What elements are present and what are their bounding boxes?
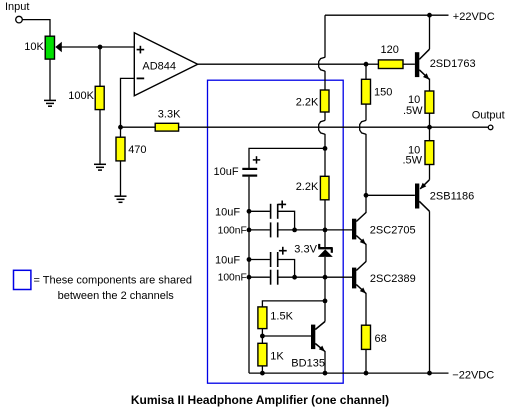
wire 2.2K to hop [324, 112, 326, 121]
svg-text:68: 68 [375, 333, 387, 345]
wire hop to node [324, 134, 326, 176]
wire 150 to hop [365, 104, 367, 120]
svg-text:100K: 100K [68, 90, 94, 102]
wire top cap to node [249, 148, 325, 168]
svg-text:10K: 10K [24, 41, 44, 53]
svg-text:1.5K: 1.5K [270, 311, 293, 323]
wire 2SC2389 emitter to 68 [365, 293, 367, 325]
svg-text:1K: 1K [270, 350, 284, 362]
resistor 10 .5W lower [425, 141, 434, 165]
capacitor 10uF top [242, 156, 260, 175]
ground under pot [44, 100, 56, 106]
svg-text:2.2K: 2.2K [296, 96, 319, 108]
resistor 2.2K upper [320, 90, 329, 112]
wire zener to BD135 node [324, 257, 326, 322]
wire feedback/output line [179, 126, 488, 128]
wire 10ohm to 2SB emitter [429, 165, 431, 180]
svg-text:AD844: AD844 [142, 60, 176, 72]
transistor Q4 2SC2389 [352, 262, 366, 294]
resistor 150 [362, 79, 371, 104]
node junction dots [98, 13, 432, 376]
wire cap row4 to 2SC2389 base [278, 276, 352, 278]
wire 100K to ground [99, 110, 101, 164]
wire 2.2K2 to zener [324, 200, 326, 247]
legend shared box [14, 270, 31, 289]
transistor Q1 2SD1763 [415, 49, 430, 80]
ground under 470 [115, 196, 127, 202]
wire 2SD emitter to 10ohm [429, 79, 431, 92]
wire rail to 2SD collector [429, 15, 431, 49]
wire caps chain [248, 177, 250, 374]
resistor 470 [116, 137, 125, 161]
svg-text:between the 2 channels: between the 2 channels [58, 290, 175, 302]
svg-text:2.2K: 2.2K [296, 181, 319, 193]
wire pot to ground [49, 59, 51, 100]
svg-text:100nF: 100nF [218, 225, 247, 236]
svg-text:10uF: 10uF [215, 254, 240, 266]
svg-text:.5W: .5W [403, 155, 423, 167]
svg-text:120: 120 [381, 44, 399, 56]
wire 1K to rail [261, 366, 263, 373]
resistor 100K [95, 86, 104, 109]
wire cap row2 left [249, 229, 270, 231]
capacitor 10uF row1 [271, 201, 287, 219]
resistor 3.3K [155, 123, 178, 131]
wire mid branch top [324, 15, 326, 57]
wire +22VDC rail [325, 14, 449, 16]
wire node to 2SB1186 base [366, 194, 415, 196]
wire hop over output line [319, 120, 325, 134]
zener diode 3.3V [318, 244, 333, 257]
svg-text:.5W: .5W [403, 105, 423, 117]
wire cap row2 to 2SC2705 base [278, 229, 352, 231]
wire 120 to 2SD base [403, 63, 415, 65]
wire 1.5K to 1K [261, 329, 263, 344]
svg-text:BD135: BD135 [291, 357, 325, 369]
wire node to 470 [120, 127, 122, 137]
wire 2SB collector to rail [429, 211, 431, 373]
potentiometer 10K [45, 36, 62, 59]
svg-text:+22VDC: +22VDC [453, 11, 495, 23]
svg-text:Input: Input [5, 1, 29, 13]
wire 120 to node [366, 63, 378, 65]
svg-text:2SD1763: 2SD1763 [430, 58, 476, 70]
wire op-amp output [198, 63, 366, 65]
ground under 100K [94, 164, 106, 170]
wire 68 to rail [365, 349, 367, 373]
output terminal [488, 125, 493, 130]
svg-text:150: 150 [374, 86, 392, 98]
transistor Q2 2SB1186 [415, 180, 430, 212]
wire BD135 base [262, 335, 311, 337]
svg-text:2SB1186: 2SB1186 [430, 190, 474, 202]
svg-text:2SC2389: 2SC2389 [370, 273, 416, 285]
wire node to 100K [99, 47, 101, 86]
svg-text:2SC2705: 2SC2705 [370, 225, 416, 237]
wire hop over op-amp output [319, 57, 325, 71]
wire hop to 2SB base node [365, 134, 367, 213]
svg-text:= These components are shared: = These components are shared [34, 274, 192, 286]
wire BD135 emitter to rail [324, 351, 326, 373]
shared-components blue box [208, 80, 344, 383]
wire cap row4 left [249, 276, 270, 278]
wire 10ohm to 10ohm [429, 113, 431, 141]
resistor 2.2K lower [320, 176, 329, 200]
wire node to 3.3K [121, 126, 156, 128]
transistor Q5 BD135 [311, 322, 325, 352]
svg-text:Output: Output [472, 109, 505, 121]
capacitor 100nF row2 [271, 222, 278, 237]
svg-text:3.3K: 3.3K [158, 109, 181, 121]
resistor 1.5K [258, 307, 267, 329]
wire input [22, 20, 50, 37]
capacitor 100nF row4 [271, 270, 278, 285]
wire 150 branch top [365, 64, 367, 79]
input terminal [16, 16, 23, 23]
wire -input [121, 78, 135, 127]
svg-text:−22VDC: −22VDC [452, 369, 494, 381]
svg-text:10uF: 10uF [214, 166, 239, 178]
resistor 68 [362, 325, 371, 349]
svg-text:10uF: 10uF [215, 206, 240, 218]
wire 1.5K node [262, 301, 325, 307]
wire 2SC2705 emitter to 2SC2389 collector [365, 244, 367, 262]
svg-text:3.3V: 3.3V [294, 244, 317, 256]
wire cap row1 left [249, 210, 270, 212]
wire cap row3 right [278, 260, 294, 278]
wire cap row3 left [249, 259, 270, 261]
wire -22VDC rail [249, 372, 449, 374]
wire hop over output line 2 [360, 120, 366, 134]
svg-text:100nF: 100nF [218, 273, 247, 284]
resistor 10 .5W upper [425, 91, 434, 113]
transistor Q3 2SC2705 [352, 213, 366, 245]
svg-text:470: 470 [128, 144, 146, 156]
wire 470 to ground [120, 161, 122, 196]
svg-text:Kumisa II Headphone Amplifier: Kumisa II Headphone Amplifier (one chann… [131, 393, 389, 407]
op-amp U1 AD844 [134, 33, 197, 96]
capacitor 10uF row3 [271, 247, 287, 267]
resistor 120 [378, 60, 403, 69]
wire cap row1 right [278, 211, 294, 230]
wire hop to 2.2K [324, 71, 326, 90]
wire wiper to +input [61, 46, 134, 48]
resistor 1K [258, 343, 267, 366]
